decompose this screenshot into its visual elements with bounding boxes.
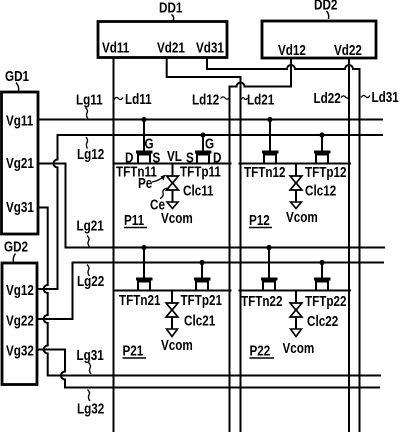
svg-text:DD1: DD1 — [159, 0, 183, 16]
svg-text:GD2: GD2 — [4, 238, 28, 255]
svg-text:TFTp21: TFTp21 — [181, 292, 223, 309]
driver box DD2 — [262, 21, 376, 58]
pixel P21 source wire — [113, 290, 232, 292]
gate driver box GD2 — [2, 263, 37, 385]
gate line Lg21 from Vg21 — [38, 164, 385, 248]
gate line Lg22 from Vg22 — [37, 263, 384, 320]
transistor TFTn11 — [136, 117, 153, 164]
svg-text:Pe: Pe — [138, 175, 153, 192]
svg-text:Vg21: Vg21 — [6, 155, 34, 172]
svg-text:Vg11: Vg11 — [6, 112, 34, 129]
svg-text:Clc11: Clc11 — [183, 182, 214, 199]
label Lg32 — [88, 390, 91, 402]
svg-text:TFTn12: TFTn12 — [244, 164, 286, 181]
svg-text:Vg12: Vg12 — [6, 282, 34, 299]
svg-text:TFTn21: TFTn21 — [119, 292, 161, 309]
transistor TFTp12 — [314, 132, 331, 163]
data line Ld22 wire from Vd22 — [348, 58, 350, 432]
capacitor Clc12 — [290, 164, 302, 209]
svg-text:Vg31: Vg31 — [6, 199, 34, 216]
svg-text:Vcom: Vcom — [283, 340, 315, 357]
pixel P11 source wire — [113, 163, 232, 165]
gate driver box GD1 — [2, 92, 39, 234]
transistor TFTn22 — [261, 245, 278, 291]
svg-text:Clc12: Clc12 — [305, 182, 336, 199]
capacitor Clc22 — [290, 291, 302, 337]
svg-text:TFTp12: TFTp12 — [305, 164, 347, 181]
svg-text:Ld11: Ld11 — [125, 91, 152, 108]
transistor TFTn12 — [262, 117, 279, 164]
svg-text:Vg32: Vg32 — [6, 342, 34, 359]
svg-text:Lg22: Lg22 — [77, 273, 104, 290]
transistor TFTn21 — [136, 245, 153, 291]
svg-text:Vcom: Vcom — [286, 209, 318, 226]
svg-text:Vd12: Vd12 — [278, 42, 306, 59]
svg-text:P22: P22 — [250, 342, 271, 359]
svg-text:Lg32: Lg32 — [77, 400, 104, 417]
gate line Lg12 from Vg12 with riser hop — [37, 135, 383, 289]
svg-text:Vg22: Vg22 — [6, 312, 34, 329]
svg-text:P11: P11 — [124, 212, 145, 229]
svg-text:Ld21: Ld21 — [247, 91, 275, 108]
svg-text:TFTp11: TFTp11 — [180, 163, 221, 180]
transistor TFTp22 — [314, 260, 331, 291]
transistor TFTp11 — [195, 132, 212, 163]
data line Ld11 — [113, 58, 115, 432]
svg-text:Ce: Ce — [150, 196, 165, 213]
gate line Lg11 from Vg11 — [38, 119, 383, 121]
data line Ld12 wire from Vd12 with hop — [230, 58, 292, 432]
svg-text:TFTn22: TFTn22 — [241, 293, 283, 310]
svg-text:Ld31: Ld31 — [372, 89, 400, 106]
label Ld31 — [361, 95, 370, 97]
svg-text:TFTp22: TFTp22 — [305, 293, 347, 310]
data line Ld31 wire from Vd31 with hops — [207, 58, 360, 432]
svg-text:Vd22: Vd22 — [334, 42, 362, 59]
gate line Lg31 from Vg31 with riser hops — [38, 208, 381, 376]
svg-text:P12: P12 — [249, 212, 270, 229]
svg-text:Clc21: Clc21 — [184, 312, 216, 329]
svg-text:Vd11: Vd11 — [102, 39, 130, 56]
svg-text:GD1: GD1 — [5, 68, 29, 85]
svg-text:Lg12: Lg12 — [77, 146, 104, 163]
label Ld21 — [241, 98, 248, 100]
svg-text:Lg11: Lg11 — [76, 91, 103, 108]
pixel P12 source wire — [239, 163, 352, 165]
capacitor Clc11 — [167, 164, 179, 209]
svg-text:Vcom: Vcom — [161, 210, 193, 227]
pixel P22 source wire — [239, 290, 352, 292]
data line Ld21 wire from Vd21 — [167, 58, 241, 432]
svg-text:Clc22: Clc22 — [307, 313, 338, 330]
svg-text:Ld22: Ld22 — [314, 90, 341, 107]
svg-text:Vd31: Vd31 — [196, 39, 224, 56]
gate line Lg32 from Vg32 with riser hop — [37, 350, 380, 388]
capacitor Clc21 — [166, 291, 178, 337]
svg-text:Vcom: Vcom — [161, 337, 193, 354]
svg-text:Ld12: Ld12 — [192, 91, 219, 108]
svg-text:Lg21: Lg21 — [77, 217, 105, 234]
svg-text:DD2: DD2 — [314, 0, 337, 13]
svg-text:Lg31: Lg31 — [77, 347, 105, 364]
svg-text:VL: VL — [167, 148, 182, 165]
label Ld11 — [114, 97, 123, 99]
driver box DD1 — [98, 22, 227, 58]
transistor TFTp21 — [194, 260, 211, 291]
svg-text:P21: P21 — [123, 342, 144, 359]
svg-text:Vd21: Vd21 — [157, 39, 185, 56]
